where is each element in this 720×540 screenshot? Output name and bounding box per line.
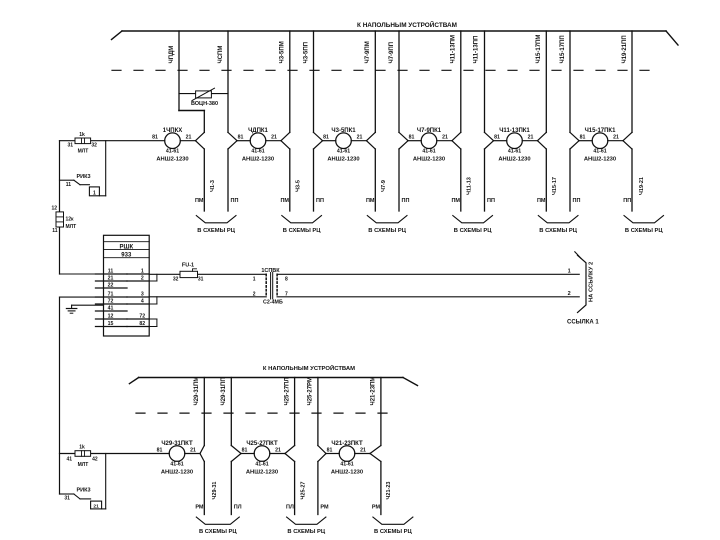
svg-text:11: 11	[108, 269, 114, 275]
svg-text:ПМ: ПМ	[366, 198, 375, 204]
svg-text:ЧПДМ: ЧПДМ	[169, 46, 175, 64]
svg-text:41-61: 41-61	[337, 149, 350, 155]
svg-text:81: 81	[494, 135, 500, 141]
svg-text:21: 21	[271, 135, 277, 141]
svg-text:Ч3-5: Ч3-5	[296, 180, 302, 192]
svg-text:Ч7-9ПК1: Ч7-9ПК1	[417, 128, 442, 134]
svg-text:1k: 1k	[79, 445, 85, 451]
svg-text:ПП: ПП	[487, 198, 495, 204]
svg-text:1СПВК: 1СПВК	[261, 268, 280, 274]
svg-text:ПЛ: ПЛ	[234, 505, 242, 511]
svg-text:АНШ2-1230: АНШ2-1230	[498, 157, 530, 163]
svg-text:В СХЕМЫ РЦ: В СХЕМЫ РЦ	[625, 228, 663, 234]
svg-text:ПМ: ПМ	[280, 198, 289, 204]
svg-text:41: 41	[67, 456, 73, 462]
svg-text:К НАПОЛЬНЫМ УСТРОЙСТВАМ: К НАПОЛЬНЫМ УСТРОЙСТВАМ	[357, 20, 457, 29]
svg-text:2: 2	[253, 291, 256, 297]
svg-text:1: 1	[253, 277, 256, 283]
svg-text:81: 81	[238, 135, 244, 141]
svg-text:Ч15-17ПК1: Ч15-17ПК1	[585, 128, 617, 134]
svg-text:2: 2	[568, 291, 571, 297]
svg-text:1k: 1k	[79, 132, 85, 138]
svg-text:2: 2	[141, 276, 144, 282]
svg-text:15: 15	[108, 321, 114, 327]
svg-text:ПЛ: ПЛ	[286, 505, 294, 511]
svg-text:Ч11-13ПМ: Ч11-13ПМ	[451, 35, 457, 64]
svg-text:11: 11	[52, 228, 58, 234]
svg-text:ПП: ПП	[402, 198, 410, 204]
svg-text:ПП: ПП	[573, 198, 581, 204]
svg-text:81: 81	[409, 135, 415, 141]
svg-text:21: 21	[613, 135, 619, 141]
svg-text:4: 4	[141, 299, 144, 305]
svg-text:12: 12	[108, 314, 114, 320]
svg-text:21: 21	[360, 447, 366, 453]
svg-text:41-61: 41-61	[255, 461, 268, 467]
svg-text:72: 72	[139, 314, 145, 320]
svg-text:К НАПОЛЬНЫМ УСТРОЙСТВАМ: К НАПОЛЬНЫМ УСТРОЙСТВАМ	[263, 364, 355, 372]
svg-text:81: 81	[152, 135, 158, 141]
svg-text:81: 81	[323, 135, 329, 141]
svg-text:С2-4МБ: С2-4МБ	[263, 299, 283, 305]
svg-text:Ч19-21ПП: Ч19-21ПП	[622, 35, 628, 63]
svg-text:41-61: 41-61	[593, 149, 606, 155]
svg-text:ССЫЛКА 1: ССЫЛКА 1	[567, 319, 599, 325]
svg-text:Ч11-13: Ч11-13	[467, 177, 473, 195]
svg-text:FU-1: FU-1	[182, 262, 194, 268]
svg-text:Ч25-27ПЛ: Ч25-27ПЛ	[284, 377, 290, 405]
svg-text:21: 21	[528, 135, 534, 141]
svg-text:Ч3-5ПК1: Ч3-5ПК1	[331, 128, 356, 134]
svg-text:МЛТ: МЛТ	[78, 462, 89, 468]
svg-text:Ч21-23: Ч21-23	[386, 482, 392, 500]
svg-text:Ч7-9ПП: Ч7-9ПП	[389, 42, 395, 64]
svg-text:41-61: 41-61	[251, 149, 264, 155]
svg-text:ПП: ПП	[231, 198, 239, 204]
svg-text:31: 31	[198, 276, 204, 282]
svg-text:Ч21-23ПКТ: Ч21-23ПКТ	[331, 441, 363, 447]
svg-text:ЧДПК1: ЧДПК1	[248, 128, 268, 134]
svg-text:Ч3-5ПП: Ч3-5ПП	[303, 42, 309, 64]
svg-text:21: 21	[186, 135, 192, 141]
svg-text:Ч25-27РМ: Ч25-27РМ	[308, 377, 314, 405]
svg-text:Ч21-23ПМ: Ч21-23ПМ	[371, 377, 377, 406]
svg-text:21: 21	[108, 276, 114, 282]
svg-text:В СХЕМЫ РЦ: В СХЕМЫ РЦ	[374, 529, 412, 535]
svg-text:Ч1-3: Ч1-3	[210, 180, 216, 192]
svg-text:РМ: РМ	[372, 505, 381, 511]
svg-text:12: 12	[51, 206, 57, 212]
svg-text:АНШ2-1230: АНШ2-1230	[413, 157, 445, 163]
svg-text:8: 8	[285, 277, 288, 283]
svg-text:Ч15-17ПМ: Ч15-17ПМ	[536, 35, 542, 64]
svg-text:Ч29-31: Ч29-31	[212, 482, 218, 500]
svg-text:РИК3: РИК3	[76, 488, 90, 494]
svg-text:МЛТ: МЛТ	[66, 224, 77, 230]
svg-text:Ч29-31ПМ: Ч29-31ПМ	[194, 377, 200, 406]
svg-text:ПП: ПП	[623, 198, 631, 204]
svg-text:АНШ2-1230: АНШ2-1230	[161, 470, 193, 476]
svg-text:Ч25-27: Ч25-27	[300, 482, 306, 500]
svg-text:82: 82	[139, 321, 145, 327]
svg-text:Ч3-5ПМ: Ч3-5ПМ	[280, 41, 286, 63]
svg-text:21: 21	[275, 447, 281, 453]
svg-text:11: 11	[66, 182, 72, 188]
svg-text:В СХЕМЫ РЦ: В СХЕМЫ РЦ	[454, 228, 492, 234]
svg-text:Ч11-13ПК1: Ч11-13ПК1	[499, 128, 530, 134]
svg-text:933: 933	[121, 253, 132, 259]
svg-text:ПП: ПП	[316, 198, 324, 204]
svg-text:РИК3: РИК3	[76, 174, 90, 180]
svg-text:РМ: РМ	[195, 505, 204, 511]
svg-text:ЧСПМ: ЧСПМ	[218, 46, 224, 64]
svg-text:31: 31	[64, 496, 70, 502]
svg-text:РШК: РШК	[119, 245, 133, 251]
svg-text:Ч7-9: Ч7-9	[381, 180, 387, 192]
svg-text:81: 81	[242, 447, 248, 453]
svg-text:ПМ: ПМ	[537, 198, 546, 204]
svg-text:41-61: 41-61	[340, 461, 353, 467]
svg-text:АНШ2-1230: АНШ2-1230	[246, 470, 278, 476]
svg-text:41-61: 41-61	[166, 149, 179, 155]
svg-text:42: 42	[92, 456, 98, 462]
svg-text:1ЧПКХ: 1ЧПКХ	[163, 128, 183, 134]
svg-text:3: 3	[141, 292, 144, 298]
svg-text:ПМ: ПМ	[195, 198, 204, 204]
svg-text:32: 32	[91, 143, 97, 149]
svg-text:В СХЕМЫ РЦ: В СХЕМЫ РЦ	[287, 529, 325, 535]
svg-text:71: 71	[108, 292, 114, 298]
svg-text:АНШ2-1230: АНШ2-1230	[331, 470, 363, 476]
svg-text:41-61: 41-61	[422, 149, 435, 155]
svg-text:Ч25-27ПКТ: Ч25-27ПКТ	[246, 441, 278, 447]
svg-text:32: 32	[173, 276, 179, 282]
svg-text:РМ: РМ	[320, 505, 329, 511]
svg-text:НА ССЫЛКУ 2: НА ССЫЛКУ 2	[589, 262, 595, 302]
svg-text:1: 1	[568, 269, 571, 275]
svg-text:Ч11-13ПП: Ч11-13ПП	[473, 36, 479, 64]
svg-text:41-61: 41-61	[508, 149, 521, 155]
svg-text:81: 81	[157, 447, 163, 453]
svg-text:ПМ: ПМ	[451, 198, 460, 204]
svg-text:В СХЕМЫ РЦ: В СХЕМЫ РЦ	[368, 228, 406, 234]
svg-text:В СХЕМЫ РЦ: В СХЕМЫ РЦ	[197, 228, 235, 234]
svg-text:МЛТ: МЛТ	[78, 148, 89, 154]
svg-text:1: 1	[141, 269, 144, 275]
svg-text:22: 22	[108, 283, 114, 289]
svg-text:АНШ2-1230: АНШ2-1230	[584, 157, 616, 163]
svg-text:72: 72	[108, 299, 114, 305]
svg-text:Ч19-21: Ч19-21	[639, 177, 645, 195]
svg-text:12к: 12к	[66, 217, 75, 223]
svg-text:Ч15-17: Ч15-17	[552, 177, 558, 195]
svg-text:81: 81	[580, 135, 586, 141]
svg-text:21: 21	[442, 135, 448, 141]
svg-text:АНШ2-1230: АНШ2-1230	[327, 157, 359, 163]
svg-text:ВОЦН-380: ВОЦН-380	[191, 101, 218, 107]
svg-text:21: 21	[190, 447, 196, 453]
svg-text:1: 1	[93, 190, 96, 196]
svg-text:В СХЕМЫ РЦ: В СХЕМЫ РЦ	[283, 228, 321, 234]
svg-text:21: 21	[357, 135, 363, 141]
svg-text:81: 81	[327, 447, 333, 453]
svg-text:В СХЕМЫ РЦ: В СХЕМЫ РЦ	[539, 228, 577, 234]
svg-text:41-61: 41-61	[170, 461, 183, 467]
svg-text:21: 21	[93, 504, 99, 510]
svg-text:В СХЕМЫ РЦ: В СХЕМЫ РЦ	[199, 529, 237, 535]
svg-text:Ч29-31ПП: Ч29-31ПП	[221, 377, 227, 405]
svg-text:АНШ2-1230: АНШ2-1230	[242, 157, 274, 163]
svg-text:АНШ2-1230: АНШ2-1230	[156, 157, 188, 163]
svg-text:Ч7-9ПМ: Ч7-9ПМ	[365, 41, 371, 63]
svg-text:31: 31	[68, 143, 74, 149]
svg-text:Ч15-17ПП: Ч15-17ПП	[560, 35, 566, 63]
svg-text:41: 41	[108, 306, 114, 312]
svg-text:Ч29-31ПКТ: Ч29-31ПКТ	[161, 441, 193, 447]
svg-text:7: 7	[285, 291, 288, 297]
